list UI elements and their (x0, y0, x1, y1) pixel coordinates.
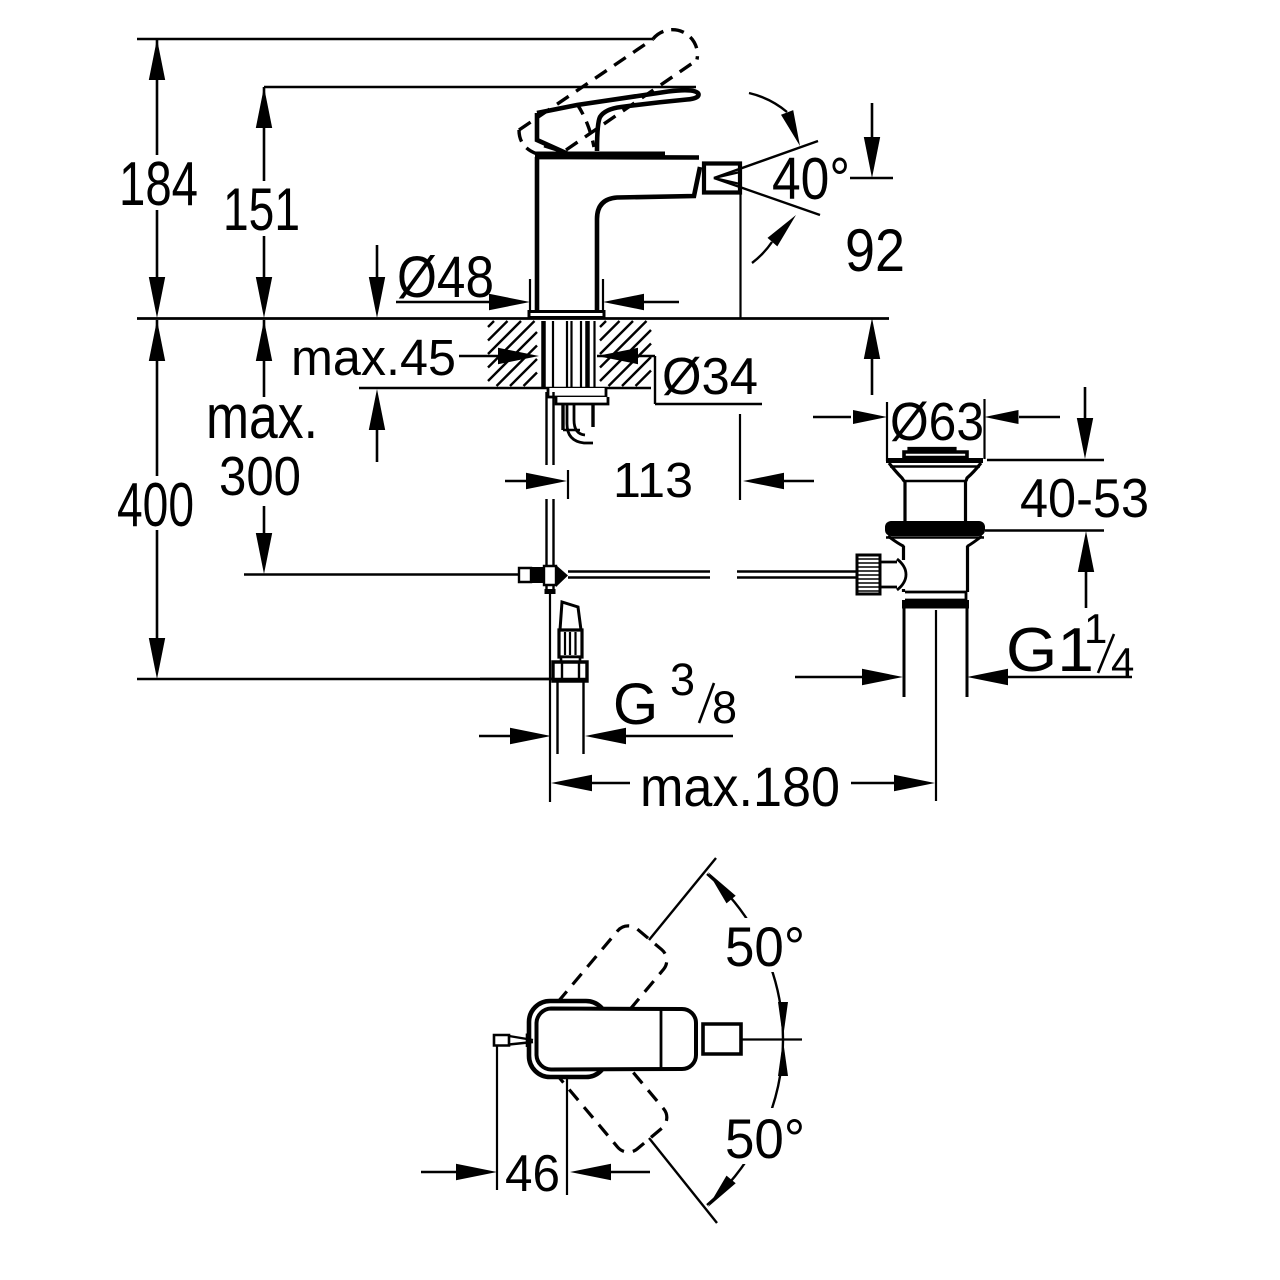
dim 92 arrows (871, 103, 874, 140)
top view escutcheon outer (529, 1001, 607, 1077)
hose collar band (561, 657, 580, 662)
open arrowhead water direction (714, 172, 740, 184)
dim Ø63 extensions + arrows (886, 402, 888, 461)
waste upper body walls (903, 481, 906, 521)
svg-text:max.: max. (206, 383, 318, 452)
svg-text:50°: 50° (725, 915, 805, 978)
svg-text:Ø63: Ø63 (890, 392, 984, 452)
pop-up rod horizontal right segment (737, 570, 857, 572)
centerline right of aerator (741, 1038, 802, 1040)
reference line 151 level (264, 86, 696, 89)
rod level reference line (max.300 bottom) (244, 573, 518, 575)
G1 1/4 pipe walls (903, 609, 906, 698)
pull rod vertical (lower segment) (545, 499, 547, 566)
svg-text:46: 46 (505, 1145, 560, 1203)
waste top flange (886, 458, 983, 463)
40 deg angle lines from aerator (714, 141, 818, 178)
svg-text:1: 1 (1084, 605, 1107, 652)
waste body taper below seal (888, 536, 982, 547)
reference line overlay across nut (480, 678, 586, 680)
svg-text:8: 8 (712, 682, 737, 733)
40 deg lower arc arrow (752, 242, 772, 263)
aerator top view (703, 1024, 741, 1054)
dim Ø34 arrow + label (597, 348, 638, 364)
waste knurled knob (857, 555, 880, 594)
waste body groove band (905, 592, 966, 600)
dim label 50deg upper (718, 918, 814, 972)
svg-text:184: 184 (119, 150, 198, 219)
svg-text:400: 400 (117, 471, 194, 540)
thin extension line below rod (max180 left) (549, 594, 551, 802)
50deg dashed swivel capsule lower (543, 1020, 667, 1152)
hose elbow stub (567, 404, 593, 443)
faucet escutcheon base plate (529, 312, 604, 318)
countertop surface line (137, 317, 889, 320)
G3/8 connection nut (553, 662, 587, 681)
svg-text:Ø34: Ø34 (662, 348, 758, 406)
svg-text:G1: G1 (1006, 616, 1094, 685)
svg-text:G: G (613, 672, 658, 737)
waste lower body walls (902, 546, 905, 560)
dim label 50deg lower (718, 1108, 814, 1164)
92 top reference line (spout outlet level) (850, 177, 893, 179)
svg-text:max.45: max.45 (291, 329, 456, 386)
dim 46 extensions (496, 1046, 498, 1190)
waste drain pipe centerline / max180 right extension (935, 610, 937, 801)
pull rod vertical (upper segment) (545, 392, 547, 465)
mounting nut step (556, 397, 608, 404)
svg-text:151: 151 (223, 176, 300, 243)
counter hatching left block (488, 321, 494, 327)
svg-text:50°: 50° (725, 1107, 805, 1170)
40-53 top reference line (987, 459, 1104, 461)
svg-text:4: 4 (1111, 639, 1134, 686)
50deg dashed swivel capsule upper (543, 926, 667, 1058)
50deg angle leg upper (649, 858, 716, 940)
dim max.180 line + arrows (551, 775, 592, 791)
dim 151 vertical line + arrows (263, 87, 266, 181)
dim max.45 arrows (counter thickness) (376, 245, 379, 281)
lever handle (solid position) (537, 90, 699, 153)
svg-text:max.180: max.180 (640, 755, 840, 818)
handle chin detail line (544, 146, 566, 153)
knob stem + ball joint (880, 559, 906, 590)
svg-text:Ø48: Ø48 (397, 245, 494, 310)
svg-text:3: 3 (670, 654, 695, 705)
rod junction fitting (519, 568, 531, 582)
dim 46 arrows (421, 1171, 458, 1173)
pop-up rod horizontal left segment (568, 570, 710, 572)
dim max.300 vertical line + arrows (263, 320, 266, 397)
50deg angle leg lower (649, 1138, 717, 1223)
svg-text:40°: 40° (772, 146, 850, 212)
pull rod below fitting (545, 585, 547, 590)
dim 184 vertical line + arrows (156, 39, 159, 155)
faucet body + spout outline (537, 157, 700, 311)
waste plug cap (909, 449, 955, 453)
waste rubber seal ring (black) (885, 521, 985, 536)
faucet body-handle bold joint line (535, 152, 665, 159)
dim 400 vertical line + arrows (156, 320, 159, 476)
pull rod knob top view (494, 1035, 509, 1046)
svg-text:40-53: 40-53 (1020, 467, 1149, 529)
svg-text:113: 113 (613, 454, 693, 508)
50deg dimension arc lower (707, 1039, 783, 1205)
spout face line top view (660, 1010, 663, 1068)
reference line top (184 level) (137, 38, 653, 41)
dim G3/8 arrows (479, 735, 514, 737)
dashed lever handle (raised position) (519, 39, 653, 130)
dim 113 extension + arrows (567, 470, 569, 499)
threaded shank in counter hole (541, 321, 546, 387)
reference line bottom (400 level) (137, 678, 586, 681)
waste seal lower lip line (886, 536, 984, 538)
Ø48 extension lines (529, 279, 531, 313)
40 deg upper arc arrow (749, 93, 787, 112)
G3/8 pipe walls (556, 681, 558, 754)
counter hatching right block (600, 321, 606, 327)
svg-text:92: 92 (845, 217, 905, 284)
svg-text:300: 300 (219, 445, 301, 507)
dim 40-53 arrows (1084, 387, 1087, 421)
flex hose angled tube (560, 602, 581, 630)
top view body + spout capsule (537, 1009, 697, 1070)
hose crimp ribbed block (559, 630, 582, 657)
50deg dimension arc upper (707, 874, 783, 1039)
dim G1 1/4 arrows (795, 676, 864, 678)
counter underside line (359, 387, 651, 390)
spout outlet vertical reference line (739, 194, 741, 318)
mounting washer under counter (548, 388, 606, 397)
40-53 bottom reference line (985, 529, 1104, 531)
aerator nozzle box (704, 164, 740, 193)
shank lower tube (561, 404, 564, 430)
